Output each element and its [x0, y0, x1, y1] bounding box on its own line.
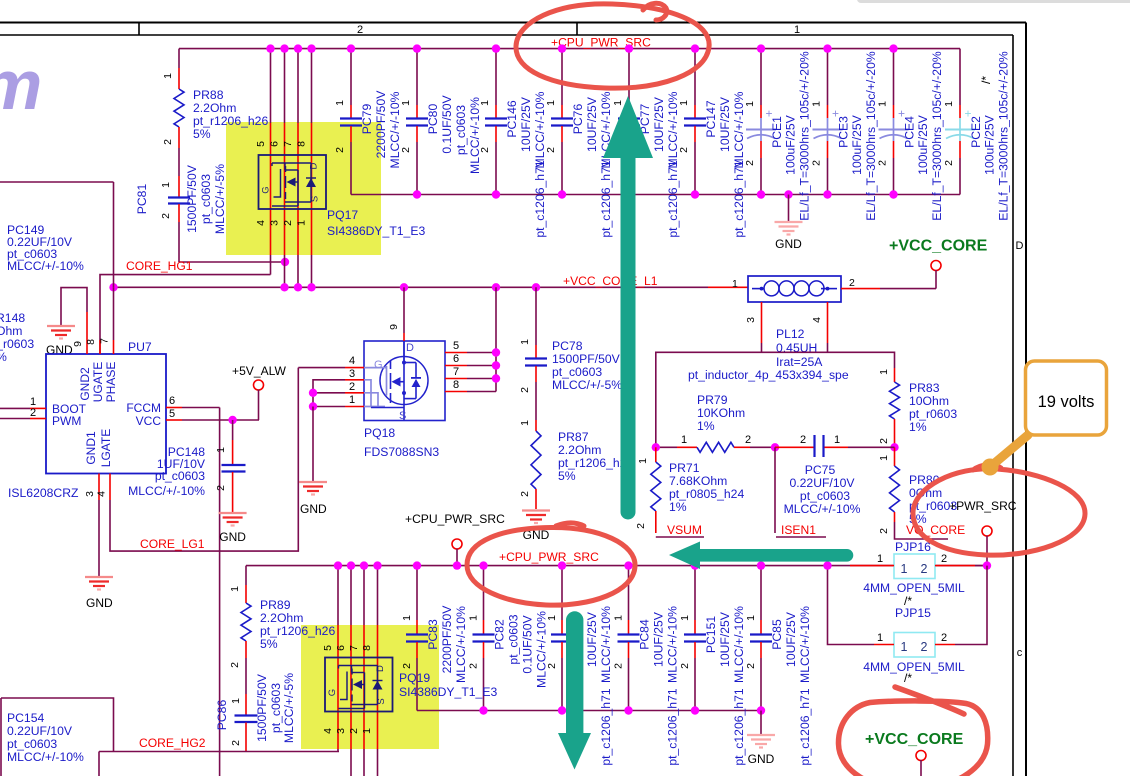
svg-text:7: 7 — [99, 338, 111, 344]
wire top cap-bank bottom rail — [351, 194, 960, 196]
svg-text:8: 8 — [361, 645, 373, 651]
svg-text:PR79: PR79 — [697, 393, 728, 407]
svg-text:pt_c1206_h71: pt_c1206_h71 — [666, 160, 680, 237]
wire ISEN1 stub — [774, 447, 776, 533]
power label +VCC_CORE top — [889, 238, 988, 255]
svg-text:5%: 5% — [193, 127, 211, 141]
svg-text:PQ19: PQ19 — [399, 671, 430, 685]
svg-text:PC79: PC79 — [360, 104, 374, 135]
svg-text:GND: GND — [86, 596, 113, 610]
net label +CPU_PWR_SRC lower — [499, 550, 599, 564]
svg-text:2.2Ohm: 2.2Ohm — [260, 611, 303, 625]
svg-text:+PWR_SRC: +PWR_SRC — [949, 499, 1017, 513]
transistor PQ18 pin9 — [388, 287, 404, 341]
svg-text:0.1UF/50V: 0.1UF/50V — [521, 615, 535, 674]
svg-text:1: 1 — [479, 100, 491, 106]
svg-text:0.22UF/10V: 0.22UF/10V — [789, 476, 855, 490]
svg-text:1: 1 — [519, 420, 531, 426]
svg-text:+CPU_PWR_SRC: +CPU_PWR_SRC — [499, 550, 599, 564]
transistor PQ19 — [325, 658, 393, 712]
callout leader 19 volts — [982, 435, 1029, 476]
svg-text:GND: GND — [748, 752, 775, 766]
svg-text:PR87: PR87 — [558, 430, 589, 444]
label PC149 — [7, 223, 84, 273]
svg-text:6: 6 — [169, 395, 175, 407]
net label +VCC_CORE_L1 — [563, 274, 658, 288]
ground lower rail GND — [747, 711, 775, 767]
svg-text:PWM: PWM — [52, 414, 81, 428]
svg-text:c: c — [1017, 647, 1023, 659]
svg-text:2: 2 — [229, 662, 241, 668]
svg-text:8: 8 — [296, 141, 308, 147]
svg-text:7: 7 — [453, 366, 459, 378]
svg-text:PC76: PC76 — [571, 104, 585, 135]
wire sense top rail — [656, 352, 895, 447]
svg-text:2: 2 — [921, 640, 928, 654]
ground PC148 — [219, 513, 247, 544]
svg-text:MLCC/+/-10%: MLCC/+/-10% — [468, 97, 482, 174]
svg-text:9: 9 — [388, 324, 400, 330]
svg-text:10UF/25V: 10UF/25V — [718, 611, 732, 667]
resistor PR83 — [878, 368, 957, 447]
svg-text:1: 1 — [732, 278, 738, 290]
capacitor PCE2 — [943, 49, 1011, 221]
border zone divider ticks — [139, 23, 577, 36]
watermark logo m — [0, 46, 42, 124]
svg-text:MLCC/+/-5%: MLCC/+/-5% — [552, 378, 622, 392]
node ISEN1 dot — [771, 443, 779, 451]
svg-text:pt_r1206_h2: pt_r1206_h2 — [558, 456, 627, 470]
svg-text:PC86: PC86 — [215, 700, 229, 731]
svg-text:3: 3 — [349, 368, 355, 380]
svg-text:1500PF/50V: 1500PF/50V — [255, 673, 269, 742]
callout box 19 volts — [1026, 361, 1107, 435]
svg-text:pt_c0603: pt_c0603 — [454, 105, 468, 155]
transistor PQ19 pin wires — [334, 561, 382, 776]
svg-text:pt_c0603: pt_c0603 — [552, 365, 602, 379]
svg-text:1: 1 — [637, 458, 649, 464]
svg-text:1: 1 — [468, 615, 480, 621]
net label VO_CORE — [906, 523, 965, 537]
resistor PR88 — [162, 49, 268, 148]
svg-text:1: 1 — [230, 698, 242, 704]
wire PQ18 pin4 stub — [298, 367, 345, 369]
svg-text:1: 1 — [546, 615, 558, 621]
svg-text:1: 1 — [679, 615, 691, 621]
capacitor PC83 — [401, 561, 468, 710]
svg-text:100uF/25V: 100uF/25V — [916, 114, 930, 174]
capacitor PCE3 — [811, 44, 879, 220]
wire PC81 to CORE_HG1 jog — [179, 222, 289, 266]
terminal +CPU_PWR_SRC — [452, 539, 462, 570]
svg-text:S: S — [310, 196, 321, 202]
svg-text:LGATE: LGATE — [99, 429, 113, 467]
svg-text:2: 2 — [282, 220, 294, 226]
svg-text:FCCM: FCCM — [126, 401, 161, 415]
svg-text:5: 5 — [169, 408, 175, 420]
label PL12 pin1 — [732, 278, 738, 290]
svg-text:R148: R148 — [0, 311, 25, 325]
svg-text:6: 6 — [453, 353, 459, 365]
node VSUM dot — [652, 443, 660, 451]
svg-text:1: 1 — [877, 101, 889, 107]
wire VO_CORE stub — [895, 522, 949, 539]
svg-text:pt_r0603: pt_r0603 — [909, 407, 957, 421]
inductor PL12 box — [748, 276, 841, 302]
svg-text:pt_c1206_h71: pt_c1206_h71 — [599, 688, 613, 765]
ic PU7 box — [46, 354, 166, 474]
svg-text:1: 1 — [794, 24, 800, 36]
svg-text:1: 1 — [681, 434, 687, 446]
svg-text:VSUM: VSUM — [667, 523, 702, 537]
svg-text:1: 1 — [545, 100, 557, 106]
svg-text:1: 1 — [519, 339, 531, 345]
svg-text:4: 4 — [322, 728, 334, 734]
teal arrow up — [603, 96, 653, 520]
svg-text:PC81: PC81 — [135, 184, 149, 215]
ic PU7 top pins — [72, 287, 114, 354]
svg-text:VCC: VCC — [136, 414, 162, 428]
label PQ19 — [399, 671, 497, 699]
svg-text:2: 2 — [877, 160, 889, 166]
capacitor PC148 — [128, 420, 245, 512]
label PC154 — [7, 711, 84, 764]
pin labels PQ19 bottom — [322, 728, 373, 734]
svg-text:2: 2 — [348, 728, 360, 734]
svg-text:5: 5 — [453, 340, 459, 352]
svg-text:S: S — [399, 410, 406, 422]
svg-text:10Ohm: 10Ohm — [909, 394, 949, 408]
svg-text:10UF/25V: 10UF/25V — [519, 96, 533, 152]
capacitor PC147 — [678, 44, 746, 237]
svg-text:1: 1 — [401, 615, 413, 621]
svg-text:4MM_OPEN_5MIL: 4MM_OPEN_5MIL — [863, 581, 965, 595]
svg-text:2: 2 — [811, 160, 823, 166]
svg-text:2.2Ohm: 2.2Ohm — [558, 443, 601, 457]
svg-text:PR89: PR89 — [260, 598, 291, 612]
svg-text:2: 2 — [401, 663, 413, 669]
svg-text:2: 2 — [215, 485, 227, 491]
svg-text:2: 2 — [635, 523, 647, 529]
net label CORE_HG2 — [139, 736, 206, 750]
svg-text:4MM_OPEN_5MIL: 4MM_OPEN_5MIL — [863, 660, 965, 674]
svg-text:PU7: PU7 — [128, 340, 152, 354]
svg-text:MLCC/+/-5%: MLCC/+/-5% — [282, 673, 296, 743]
svg-text:EL/Lf_T=3000hrs_105c/+/-20%: EL/Lf_T=3000hrs_105c/+/-20% — [798, 51, 812, 221]
svg-text:m: m — [0, 46, 42, 124]
transistor PQ17 — [259, 155, 327, 209]
svg-text:2: 2 — [468, 663, 480, 669]
svg-text:4: 4 — [255, 220, 267, 226]
svg-text:G: G — [327, 689, 338, 696]
svg-text:MLCC/+/-10%: MLCC/+/-10% — [535, 611, 549, 688]
resistor PR79 — [656, 393, 775, 452]
svg-text:1: 1 — [296, 220, 308, 226]
svg-text:PC83: PC83 — [426, 619, 440, 650]
label PQ18 — [364, 426, 439, 459]
terminal VO_CORE — [982, 526, 992, 566]
svg-text:pt_c0603: pt_c0603 — [269, 683, 283, 733]
wire +CPU_PWR_SRC top bus — [179, 48, 960, 50]
svg-text:2: 2 — [162, 139, 174, 145]
svg-text:1: 1 — [612, 100, 624, 106]
label PR148 partial — [0, 311, 34, 364]
net label VSUM — [656, 523, 704, 537]
svg-text:1: 1 — [901, 562, 908, 576]
svg-text:10UF/25V: 10UF/25V — [718, 96, 732, 152]
net label CORE_LG1 — [140, 537, 205, 551]
svg-text:GND: GND — [219, 530, 246, 544]
transistor PQ18 left pins — [345, 355, 364, 407]
ic PU7 right pins — [166, 395, 259, 424]
svg-text:2: 2 — [745, 434, 751, 446]
svg-text:1: 1 — [745, 615, 757, 621]
net label CORE_HG1 — [126, 259, 193, 273]
red scribble around top +CPU_PWR_SRC — [516, 3, 709, 88]
svg-text:+VCC_CORE: +VCC_CORE — [889, 238, 988, 255]
teal arrow left — [669, 542, 853, 570]
wire PR88 to PC81 — [178, 148, 180, 176]
svg-text:PCE4: PCE4 — [903, 116, 917, 148]
svg-text:S: S — [376, 698, 387, 704]
svg-text:2: 2 — [30, 407, 36, 419]
svg-text:2.2Ohm: 2.2Ohm — [193, 101, 236, 115]
red scribble around bottom +VCC_CORE — [838, 687, 987, 776]
svg-text:1: 1 — [834, 434, 840, 446]
svg-text:1: 1 — [943, 101, 955, 107]
svg-text:2: 2 — [400, 147, 412, 153]
capacitor PC81 — [135, 164, 227, 234]
wire lower cap-bank bottom rail — [417, 710, 761, 712]
pin labels PQ17 bottom — [255, 220, 308, 226]
net label ISEN1 — [776, 523, 826, 537]
svg-text:pt_c0603: pt_c0603 — [155, 469, 205, 483]
svg-text:PJP15: PJP15 — [895, 606, 931, 620]
svg-text:pt_c1206_h71: pt_c1206_h71 — [798, 688, 812, 765]
svg-text:9: 9 — [72, 341, 84, 347]
wire CORE_LG1 — [110, 368, 298, 551]
svg-text:PHASE: PHASE — [104, 362, 118, 403]
svg-text:GND1: GND1 — [84, 431, 98, 465]
terminal +5V_ALW — [254, 380, 264, 420]
ic PU7 right pin names — [126, 401, 161, 428]
svg-text:MLCC/+/-10%: MLCC/+/-10% — [599, 606, 613, 683]
svg-text:2: 2 — [613, 663, 625, 669]
svg-text:4: 4 — [349, 355, 355, 367]
capacitor PC76 — [545, 44, 613, 237]
svg-text:pt_c0603: pt_c0603 — [7, 737, 57, 751]
svg-text:1%: 1% — [697, 419, 715, 433]
svg-text:EL/Lf_T=3000hrs_105c/+/-20%: EL/Lf_T=3000hrs_105c/+/-20% — [997, 51, 1011, 221]
capacitor PC146 — [479, 44, 547, 237]
red scribble around lower +CPU_PWR_SRC — [467, 523, 635, 605]
border zone label 2 — [357, 24, 363, 36]
svg-text:2: 2 — [678, 147, 690, 153]
svg-text:2: 2 — [941, 553, 947, 565]
svg-text:pt_c1206_h71: pt_c1206_h71 — [666, 688, 680, 765]
svg-text:pt_c0603: pt_c0603 — [199, 174, 213, 224]
svg-text:10UF/25V: 10UF/25V — [784, 611, 798, 667]
wire PC149 net — [0, 182, 114, 287]
svg-text:D: D — [1016, 240, 1024, 252]
transistor PQ18 box — [364, 341, 445, 421]
svg-text:2: 2 — [160, 213, 172, 219]
svg-text:7.68KOhm: 7.68KOhm — [669, 474, 727, 488]
svg-text:PC146: PC146 — [505, 100, 519, 137]
svg-text:1500PF/50V: 1500PF/50V — [552, 352, 621, 366]
svg-text:5: 5 — [255, 141, 267, 147]
svg-text:CORE_HG1: CORE_HG1 — [126, 259, 193, 273]
ground PR87 — [522, 511, 550, 543]
power label +5V_ALW — [232, 364, 286, 378]
svg-text:1: 1 — [349, 394, 355, 406]
ic PU7 left pins — [0, 396, 46, 419]
svg-text:pt_r1206_h26: pt_r1206_h26 — [260, 624, 335, 638]
svg-text:PR83: PR83 — [909, 381, 940, 395]
border zone label 1 — [794, 24, 800, 36]
svg-text:2: 2 — [230, 740, 242, 746]
svg-text:1: 1 — [361, 728, 373, 734]
capacitor PCE4 — [877, 44, 945, 220]
svg-text:ISL6208CRZ: ISL6208CRZ — [8, 486, 79, 500]
ic PU7 left pin names — [52, 402, 87, 428]
wire FCCM long vertical — [219, 408, 221, 776]
jumper PJP16 label — [895, 540, 931, 554]
svg-text:4: 4 — [811, 317, 823, 323]
svg-text:MLCC/+/-10%: MLCC/+/-10% — [454, 606, 468, 683]
svg-text:2: 2 — [349, 381, 355, 393]
svg-text:Ohm: Ohm — [0, 324, 22, 338]
transistor PQ18 internals — [364, 341, 421, 422]
inductor PL12 coils — [752, 281, 837, 296]
highlight PQ19 — [301, 625, 439, 749]
svg-text:1: 1 — [878, 369, 890, 375]
label PL12 — [688, 327, 849, 382]
wire PC154 net — [1, 698, 114, 776]
svg-text:2: 2 — [545, 147, 557, 153]
wire phase bus +VCC_CORE_L1 — [109, 283, 748, 291]
svg-text:GND2: GND2 — [78, 367, 92, 401]
svg-text:2: 2 — [519, 387, 531, 393]
svg-text:MLCC/+/-5%: MLCC/+/-5% — [213, 164, 227, 234]
svg-text:100uF/25V: 100uF/25V — [983, 114, 997, 174]
capacitor PC151 — [679, 561, 746, 765]
svg-text:PC75: PC75 — [805, 463, 836, 477]
svg-text:PCE2: PCE2 — [969, 116, 983, 148]
svg-text:5%: 5% — [260, 637, 278, 651]
svg-text:G: G — [374, 359, 383, 371]
svg-text:PC154: PC154 — [7, 711, 44, 725]
teal arrow down — [558, 611, 591, 769]
svg-text:MLCC/+/-10%: MLCC/+/-10% — [732, 606, 746, 683]
jumper PJP15 label — [895, 606, 931, 620]
svg-text:+VCC_CORE_L1: +VCC_CORE_L1 — [563, 274, 658, 288]
capacitor PC75 — [775, 434, 895, 516]
svg-text:2: 2 — [744, 160, 756, 166]
svg-text:PCE1: PCE1 — [770, 116, 784, 148]
net label +CPU_PWR_SRC top — [551, 36, 651, 50]
svg-text:1500PF/50V: 1500PF/50V — [185, 164, 199, 233]
power label +CPU_PWR_SRC black — [405, 512, 505, 526]
svg-text:1%: 1% — [669, 500, 687, 514]
svg-text:2: 2 — [878, 438, 890, 444]
wire +CPU_PWR_SRC lower bus — [246, 565, 987, 567]
svg-text:100uF/25V: 100uF/25V — [784, 114, 798, 174]
svg-text:6: 6 — [269, 141, 281, 147]
svg-text:2: 2 — [679, 663, 691, 669]
svg-text:PQ17: PQ17 — [327, 208, 358, 222]
svg-text:pt_r0603: pt_r0603 — [0, 337, 34, 351]
svg-text:1: 1 — [334, 100, 346, 106]
capacitor PCE1 — [744, 44, 812, 220]
svg-text:PJP16: PJP16 — [895, 540, 931, 554]
capacitor PC82 — [468, 561, 549, 714]
wire PQ18 gates to GND — [309, 380, 345, 481]
svg-text:MLCC/+/-10%: MLCC/+/-10% — [798, 606, 812, 683]
svg-text:+CPU_PWR_SRC: +CPU_PWR_SRC — [405, 512, 505, 526]
svg-text:MLCC/+/-10%: MLCC/+/-10% — [7, 750, 84, 764]
svg-text:1: 1 — [811, 101, 823, 107]
svg-text:0.22UF/10V: 0.22UF/10V — [7, 724, 73, 738]
svg-text:+5V_ALW: +5V_ALW — [232, 364, 286, 378]
svg-text:MLCC/+/-10%: MLCC/+/-10% — [666, 606, 680, 683]
svg-text:1: 1 — [901, 640, 908, 654]
svg-text:pt_c1206_h71: pt_c1206_h71 — [599, 160, 613, 237]
svg-text:pt_c0603: pt_c0603 — [800, 489, 850, 503]
svg-text:SI4386DY_T1_E3: SI4386DY_T1_E3 — [399, 685, 497, 699]
variant marker PCE2 — [979, 76, 993, 84]
svg-text:PC151: PC151 — [704, 616, 718, 653]
power label +PWR_SRC — [949, 499, 1017, 513]
svg-text:Irat=25A: Irat=25A — [776, 355, 823, 369]
svg-text:4: 4 — [96, 491, 108, 497]
svg-text:/*: /* — [904, 671, 912, 685]
wire CORE_HG1 — [100, 275, 271, 354]
terminal +VCC_CORE top — [931, 261, 941, 289]
svg-text:pt_c1206_h71: pt_c1206_h71 — [732, 160, 746, 237]
ic PU7 bottom pin names — [84, 429, 113, 467]
svg-text:pt_c0603: pt_c0603 — [507, 614, 521, 664]
svg-text:2: 2 — [941, 632, 947, 644]
svg-text:2: 2 — [479, 147, 491, 153]
svg-text:2: 2 — [546, 663, 558, 669]
capacitor PC79 — [334, 44, 402, 194]
svg-text:1: 1 — [878, 455, 890, 461]
svg-text:1: 1 — [877, 553, 883, 565]
svg-text:3: 3 — [269, 220, 281, 226]
svg-text:PCE3: PCE3 — [837, 116, 851, 148]
label PQ17 — [327, 208, 425, 238]
svg-text:PR88: PR88 — [193, 88, 224, 102]
svg-text:MLCC/+/-10%: MLCC/+/-10% — [128, 484, 205, 498]
svg-text:PC147: PC147 — [704, 100, 718, 137]
svg-text:2: 2 — [943, 160, 955, 166]
transistor PQ17 pin wires — [266, 44, 315, 287]
svg-text:GND: GND — [775, 237, 802, 251]
svg-text:3: 3 — [84, 491, 96, 497]
svg-text:MLCC/+/-10%: MLCC/+/-10% — [7, 259, 84, 273]
svg-text:2: 2 — [745, 663, 757, 669]
svg-text:pt_c1206_h71: pt_c1206_h71 — [533, 160, 547, 237]
capacitor PC80 — [400, 44, 482, 198]
label PU7 — [128, 340, 152, 354]
svg-text:0.1UF/50V: 0.1UF/50V — [440, 95, 454, 154]
jumper PJP16 — [850, 553, 991, 579]
ground top rail GND — [775, 190, 803, 251]
browser chrome notch top-right — [857, 0, 1130, 3]
svg-text:10KOhm: 10KOhm — [697, 406, 745, 420]
svg-text:CORE_HG2: CORE_HG2 — [139, 736, 206, 750]
